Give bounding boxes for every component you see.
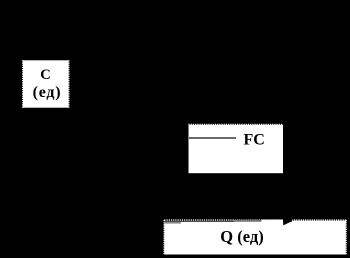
x-axis label box Q (ед): [164, 220, 346, 255]
x-axis top edge white segment: [262, 220, 284, 223]
x-axis line remnant over box edge (gray): [234, 220, 262, 222]
svg-text:Q (ед): Q (ед): [220, 227, 263, 246]
FC label box: [189, 124, 284, 173]
x-axis top edge right segment: [292, 221, 346, 223]
FC horizontal line: [189, 137, 236, 139]
svg-text:(ед): (ед): [33, 84, 62, 101]
x-axis arrowhead notch: [283, 218, 293, 226]
y-axis label box C (ед): [23, 60, 69, 107]
svg-text:С: С: [40, 67, 50, 83]
x-axis line remnant left (gray): [165, 222, 182, 224]
svg-text:FC: FC: [244, 132, 265, 149]
